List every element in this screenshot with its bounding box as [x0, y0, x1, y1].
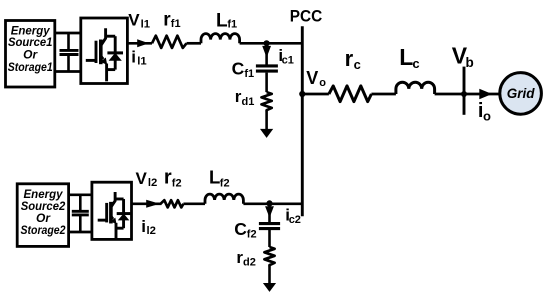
label r_c	[345, 46, 361, 72]
svg-text:c1: c1	[282, 55, 294, 67]
ground arrow 2	[263, 283, 276, 292]
arrow: current i_l2	[146, 200, 160, 208]
node: junction filter 2	[266, 200, 272, 206]
svg-text:Storage2: Storage2	[21, 223, 66, 237]
resistor r_d1	[262, 92, 272, 111]
capacitor C_f2	[259, 224, 280, 229]
resistor r_d2	[264, 247, 274, 267]
wire: DC bus 1 bottom	[55, 70, 81, 73]
inductor L_c	[396, 82, 435, 94]
arrow: current i_c1	[262, 45, 271, 65]
box: Energy Source2 Or Storage2	[17, 184, 68, 247]
wire: L_c to Grid	[435, 93, 499, 96]
svg-text:r: r	[164, 167, 172, 189]
label V_l1	[128, 11, 150, 31]
svg-text:i: i	[131, 48, 136, 67]
ground arrow 1	[260, 129, 273, 138]
wire: V_o to r_c	[302, 93, 329, 96]
node: junction filter 1	[264, 40, 270, 46]
arrow: current i_c2	[265, 205, 274, 222]
label r_f2	[164, 167, 182, 190]
inverter 2 box	[92, 182, 132, 239]
label V_l2	[136, 169, 158, 189]
svg-text:f1: f1	[227, 18, 237, 30]
arrow: current i_l1	[137, 39, 149, 47]
label V_o	[306, 68, 326, 89]
node V_o	[299, 91, 305, 97]
label r_d2	[236, 248, 255, 269]
wire: L_f2 to PCC line	[243, 202, 302, 205]
label C_f1	[232, 59, 255, 81]
svg-text:f2: f2	[220, 178, 230, 190]
grid circle	[500, 73, 542, 115]
svg-text:i: i	[141, 217, 146, 236]
inductor L_f2	[205, 194, 243, 204]
capacitor: DC-link 1	[60, 33, 79, 72]
svg-text:Storage1: Storage1	[8, 60, 53, 74]
resistor r_f2	[161, 200, 184, 207]
svg-text:L: L	[216, 11, 228, 32]
svg-text:V: V	[136, 169, 148, 188]
label L_f2	[209, 167, 230, 190]
label r_f1	[163, 9, 180, 30]
svg-text:L: L	[209, 167, 220, 188]
wire	[268, 267, 271, 285]
label V_b	[452, 42, 474, 70]
svg-text:l1: l1	[141, 18, 150, 30]
svg-text:C: C	[234, 219, 247, 239]
wire: L_f1 to PCC line	[240, 42, 303, 45]
svg-text:c: c	[354, 57, 361, 72]
svg-text:d1: d1	[242, 96, 255, 108]
wire	[265, 112, 268, 131]
wire: DC bus 2 top	[69, 193, 92, 196]
svg-text:c: c	[412, 56, 419, 71]
label L_c	[399, 44, 419, 71]
svg-text:f2: f2	[247, 229, 257, 241]
svg-text:l2: l2	[147, 225, 156, 237]
wire: DC bus 2 bottom	[69, 231, 92, 234]
wire	[371, 93, 396, 96]
label r_d1	[235, 87, 255, 108]
node dot V_b	[461, 91, 467, 97]
label L_f1	[216, 11, 237, 32]
resistor r_f1	[152, 36, 187, 48]
label i_c1	[278, 46, 293, 67]
arrow: current i_o	[479, 89, 492, 100]
transistor: IGBT with antiparallel diode (inverter 2)	[98, 192, 131, 238]
svg-text:c2: c2	[289, 214, 301, 226]
wire	[268, 230, 271, 247]
label i_c2	[285, 205, 301, 226]
svg-text:f1: f1	[244, 68, 254, 80]
svg-text:b: b	[466, 55, 474, 70]
svg-text:f2: f2	[172, 178, 182, 190]
svg-text:Grid: Grid	[507, 86, 536, 101]
svg-text:r: r	[345, 46, 354, 71]
wire: PCC vertical bus	[301, 26, 304, 216]
box: Energy Source1 Or Storage1	[6, 21, 55, 88]
label i_l1	[131, 48, 146, 68]
node: V_b bar	[463, 67, 466, 115]
wire	[183, 202, 205, 205]
capacitor C_f1	[256, 66, 278, 71]
svg-text:o: o	[319, 77, 326, 89]
resistor r_c	[329, 86, 372, 102]
svg-text:o: o	[483, 108, 491, 123]
label i_o	[478, 100, 491, 124]
wire	[265, 73, 268, 93]
svg-text:PCC: PCC	[290, 7, 323, 26]
wire	[187, 42, 202, 45]
svg-text:L: L	[399, 44, 413, 70]
svg-text:f1: f1	[171, 18, 181, 30]
label i_l2	[141, 217, 156, 237]
wire: inverter 2 output	[132, 202, 162, 205]
label C_f2	[234, 219, 256, 240]
wire: inverter 1 output	[127, 42, 152, 45]
transistor: IGBT with antiparallel diode (inverter 1)	[86, 28, 123, 81]
capacitor: DC-link 2	[72, 195, 89, 232]
inverter 1 box	[81, 18, 128, 84]
svg-text:d2: d2	[243, 257, 256, 269]
svg-text:V: V	[128, 11, 140, 30]
svg-text:l1: l1	[137, 56, 146, 68]
wire: DC bus 1 top	[55, 32, 81, 35]
svg-text:l2: l2	[148, 177, 157, 189]
svg-text:C: C	[232, 59, 245, 79]
inductor L_f1	[201, 34, 240, 44]
svg-text:V: V	[306, 68, 318, 88]
